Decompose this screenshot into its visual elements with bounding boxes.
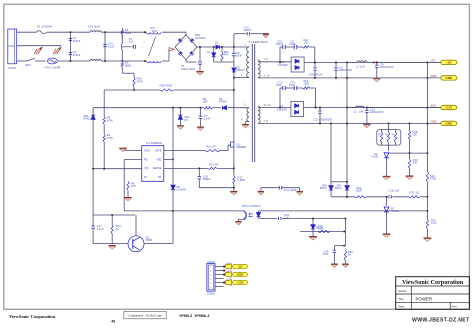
svg-text:R17: R17 [392,134,395,136]
svg-text:GND: GND [144,149,150,153]
svg-text:Model: Model [398,289,406,293]
svg-text:0.1uF: 0.1uF [97,227,104,231]
svg-text:2: 2 [210,270,211,272]
svg-text:VIN: VIN [144,166,148,170]
svg-text:Rev: Rev [452,305,458,309]
svg-text:100pF: 100pF [289,43,297,46]
svg-text:10K: 10K [304,41,309,44]
svg-text:Title: Title [398,297,404,301]
svg-text:PW1: PW1 [9,44,15,48]
svg-text:+12V: +12V [237,281,244,285]
svg-text:11, 12: 11, 12 [264,103,272,107]
svg-text:TL431: TL431 [391,209,399,213]
svg-text:B2CA: B2CA [320,187,327,190]
svg-text:+5V: +5V [446,61,451,65]
svg-text:6: 6 [210,286,211,288]
svg-text:R2A 470K: R2A 470K [160,84,173,88]
svg-text:PC1 LTV817C: PC1 LTV817C [242,204,262,208]
svg-text:Confidential - Do Not Copy: Confidential - Do Not Copy [128,314,162,318]
svg-text:100nF: 100nF [244,28,252,32]
svg-text:100R: 100R [356,188,362,192]
svg-text:2A/600V: 2A/600V [195,36,206,40]
svg-text:47K: 47K [224,53,229,57]
svg-text:SENSE: SENSE [153,166,162,170]
svg-text:FR107: FR107 [219,99,228,103]
svg-text:R11 1R: R11 1R [207,145,216,149]
svg-text:100uF 400V: 100uF 400V [181,67,195,71]
svg-text:CON1: CON1 [8,66,16,70]
svg-text:1uH: 1uH [359,110,364,114]
svg-text:R2K2: R2K2 [84,117,91,121]
svg-text:10A/60V: 10A/60V [277,107,287,111]
svg-text:470K: 470K [430,177,436,181]
svg-text:WWW.JBEST-DZ.NET: WWW.JBEST-DZ.NET [412,318,470,324]
svg-text:GND: GND [431,74,437,78]
svg-text:C4: C4 [207,50,211,54]
svg-text:0.1uF: 0.1uF [108,44,115,48]
svg-text:1K: 1K [416,190,419,194]
svg-text:+12V: +12V [445,106,452,110]
svg-text:C13 1000uF/25V: C13 1000uF/25V [314,118,333,121]
svg-text:F1 1A/250V: F1 1A/250V [37,25,53,29]
svg-text:7, 8: 7, 8 [264,119,269,123]
svg-text:10nF: 10nF [204,117,211,121]
svg-text:1000uF/16V: 1000uF/16V [339,69,353,72]
svg-text:470K: 470K [107,118,114,122]
svg-text:3mH: 3mH [152,29,158,33]
svg-text:10K: 10K [131,184,136,188]
svg-text:4.7K: 4.7K [431,221,437,225]
svg-text:RT: RT [158,175,162,179]
svg-text:R5: R5 [185,118,189,122]
svg-text:10nF: 10nF [289,84,295,87]
svg-text:680pF: 680pF [203,177,211,181]
svg-text:1000uF/16V: 1000uF/16V [309,73,323,76]
svg-text:10K: 10K [413,133,418,137]
svg-text:1K: 1K [348,252,351,256]
svg-text:SW1: SW1 [25,63,31,67]
svg-text:+12V: +12V [430,104,437,108]
svg-text:GATE: GATE [155,149,162,153]
svg-text:470K: 470K [137,79,144,83]
svg-text:CY4 100pF: CY4 100pF [284,188,298,192]
svg-text:GND: GND [446,122,453,126]
svg-text:CON3: CON3 [207,260,215,264]
svg-text:560K: 560K [125,63,132,67]
svg-text:GND: GND [237,273,243,277]
svg-text:1K: 1K [116,227,120,231]
svg-text:VDD: VDD [156,157,162,161]
svg-text:T1 EE25 80uH: T1 EE25 80uH [249,40,268,44]
svg-text:7, 8: 7, 8 [264,57,269,61]
svg-text:10R: 10R [203,99,208,103]
svg-text:+5V: +5V [237,265,242,269]
svg-text:1: 1 [210,266,211,268]
svg-text:9, 10: 9, 10 [264,73,270,77]
svg-text:RI: RI [144,175,147,179]
svg-text:R13A: R13A [316,226,323,230]
svg-text:NTC1 1A/9R: NTC1 1A/9R [45,66,61,70]
svg-text:R16: R16 [385,134,388,136]
svg-text:3N80: 3N80 [146,238,153,242]
svg-text:ViewSonic Corporation: ViewSonic Corporation [9,314,56,319]
svg-text:FR107: FR107 [236,68,245,72]
svg-text:YP950-3_YP950b-3: YP950-3_YP950b-3 [179,314,209,318]
svg-text:100nF: 100nF [276,43,284,46]
svg-text:10K: 10K [413,161,418,165]
svg-text:ViewSonic Corporation: ViewSonic Corporation [402,280,464,286]
svg-text:R10 1R: R10 1R [209,163,218,167]
svg-text:CON3: CON3 [207,292,215,296]
svg-text:R15: R15 [378,134,381,136]
svg-text:1uF: 1uF [284,216,289,220]
svg-text:470K: 470K [107,136,114,140]
svg-text:4: 4 [210,278,211,280]
svg-text:0.68R: 0.68R [238,178,245,182]
svg-text:Date: Date [398,305,405,309]
svg-text:10nF: 10nF [236,54,242,58]
svg-text:220nF: 220nF [73,39,81,43]
svg-text:2n2: 2n2 [129,40,134,44]
svg-text:TL431: TL431 [371,154,379,158]
svg-text:~: ~ [141,46,143,50]
svg-text:LL4148: LL4148 [177,188,187,192]
svg-text:1000uF/25V: 1000uF/25V [370,111,384,114]
svg-text:48: 48 [111,320,115,324]
svg-text:FB: FB [144,157,148,161]
svg-text:GND: GND [431,119,437,123]
svg-text:POWER: POWER [416,296,433,301]
svg-text:U1 SG6848: U1 SG6848 [146,141,162,145]
svg-text:2N60B5: 2N60B5 [236,145,246,149]
svg-text:100R: 100R [304,82,310,85]
svg-text:1uH: 1uH [360,65,365,69]
svg-text:10nF: 10nF [276,84,282,87]
svg-text:220nF: 220nF [73,53,81,57]
svg-text:+5V: +5V [431,58,436,62]
svg-text:R23: R23 [410,190,415,194]
svg-text:1000uF/16V: 1000uF/16V [380,66,394,69]
svg-text:B2CA: B2CA [335,187,342,190]
svg-text:GND: GND [446,76,453,80]
svg-text:D1: D1 [215,41,219,45]
svg-text:C18_1uF: C18_1uF [389,188,400,192]
svg-text:LF1 3mH: LF1 3mH [88,25,100,29]
svg-text:10A/60V: 10A/60V [278,63,288,67]
svg-text:47uF: 47uF [323,252,329,256]
svg-text:3: 3 [210,274,211,276]
svg-text:560K: 560K [125,31,132,35]
svg-text:5: 5 [210,282,211,284]
svg-text:~: ~ [144,40,146,44]
